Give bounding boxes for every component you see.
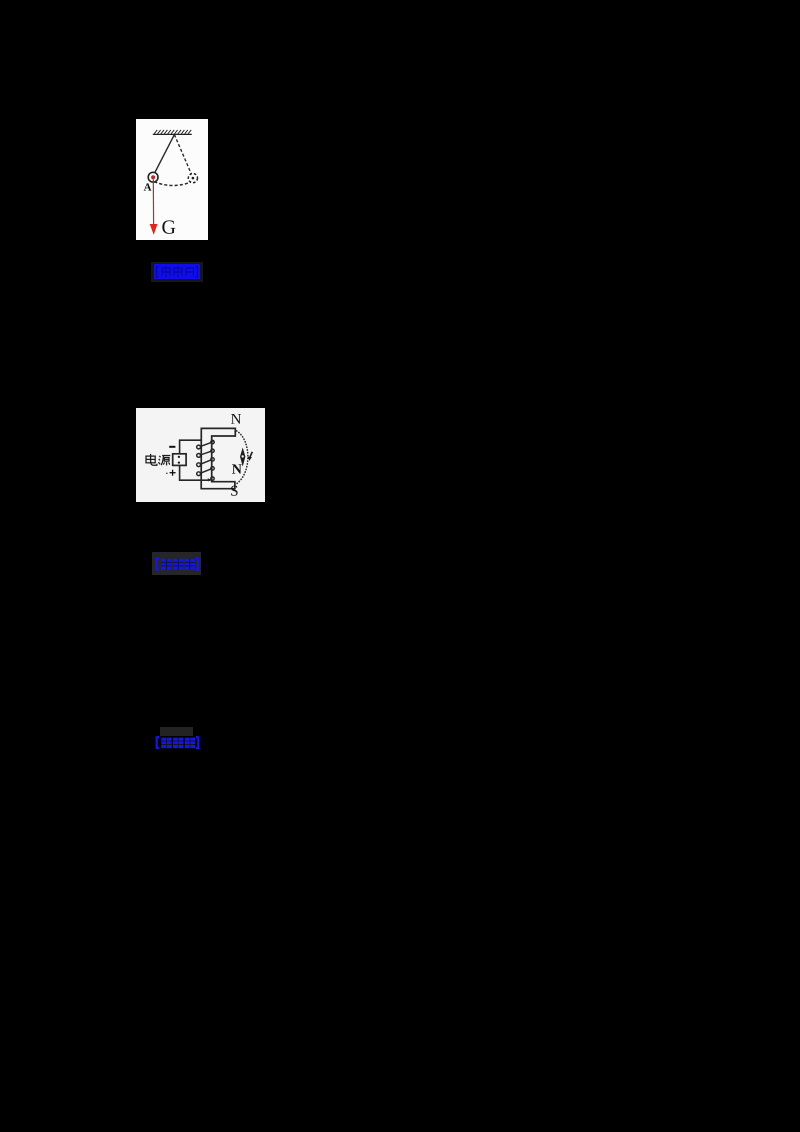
label S (bottom pole) xyxy=(231,485,237,495)
coil turn 3 xyxy=(196,457,214,466)
minus label xyxy=(169,445,175,447)
bob at A (solid ball) xyxy=(148,172,158,182)
coil turn 5 (joins bottom wire) xyxy=(210,476,213,479)
junction blob top xyxy=(210,439,213,442)
label A xyxy=(144,183,152,190)
wire from battery top to coil xyxy=(179,440,201,454)
label G xyxy=(162,220,175,233)
pendulum string (dashed, right position) xyxy=(174,135,191,175)
figure: electromagnet diagram panel xyxy=(136,408,266,503)
ceiling hatch marks xyxy=(154,130,191,134)
battery box xyxy=(172,453,185,465)
coil turn 1 xyxy=(196,440,214,449)
label N (needle) xyxy=(232,464,242,473)
gravity vector line xyxy=(152,177,154,225)
label 电源 (power supply), char 1 xyxy=(146,453,157,464)
swing arc (dashed) xyxy=(154,182,191,186)
compass needle xyxy=(240,447,245,466)
bob at right (dashed ball) xyxy=(188,174,197,183)
ceiling hatch line xyxy=(153,133,192,135)
answer tag 1 (blue highlight box) xyxy=(151,262,203,282)
red center dot of bob A xyxy=(151,175,155,179)
wire from battery bottom to coil xyxy=(179,465,210,480)
center dot of dashed bob xyxy=(192,177,195,180)
battery dots xyxy=(177,455,179,457)
coil turn 4 xyxy=(196,466,214,475)
plus label xyxy=(169,469,175,475)
dotted compass path arc xyxy=(235,430,247,483)
rotation arrow xyxy=(250,451,252,456)
figure: pendulum diagram panel xyxy=(136,119,208,240)
coil turn 2 xyxy=(196,449,214,457)
label N (top pole) xyxy=(231,413,241,423)
pendulum string (solid, position A) xyxy=(154,135,175,175)
gravity arrowhead xyxy=(150,224,158,235)
answer tag 2 (blue text on dark) xyxy=(152,552,201,576)
answer tag 3 (blue text on dark) xyxy=(160,727,193,736)
label 电源 (power supply), char 2 xyxy=(158,455,170,465)
junction blob bottom xyxy=(207,478,211,481)
iron core (C-shape) xyxy=(201,428,235,488)
